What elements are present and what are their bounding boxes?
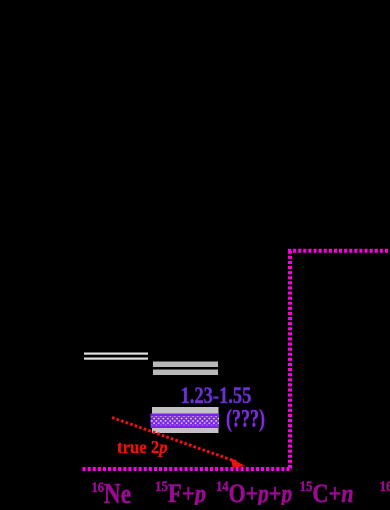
label 15C+n — [300, 479, 354, 508]
threshold dotted line bottom horizontal — [83, 467, 293, 471]
label 16Ne — [92, 478, 132, 510]
label 16C partially cut at right edge — [380, 479, 390, 508]
svg-text:true 2p: true 2p — [117, 437, 168, 457]
label 14O+p+p — [216, 478, 292, 508]
level purple band bottom border — [151, 425, 220, 428]
threshold dotted line vertical — [288, 250, 292, 468]
level 16Ne ground state lower line — [84, 358, 148, 360]
svg-text:(???): (???) — [226, 405, 265, 433]
level 16Ne ground state upper line — [84, 353, 148, 355]
arrow true 2p dotted shaft — [112, 418, 236, 462]
label true 2p — [117, 437, 168, 457]
label (???) — [226, 405, 265, 433]
arrow true 2p head — [231, 458, 246, 468]
label 15F+p — [155, 478, 206, 508]
level purple hatched band — [151, 416, 220, 425]
level 15F+p lower gray bar — [153, 370, 218, 376]
threshold dotted line top horizontal — [288, 249, 390, 253]
level 15F+p upper gray bar — [153, 362, 218, 368]
level purple band top border — [151, 414, 220, 417]
level gray uncertainty band — [152, 407, 219, 433]
label energy range 1.23-1.55 — [181, 382, 252, 408]
